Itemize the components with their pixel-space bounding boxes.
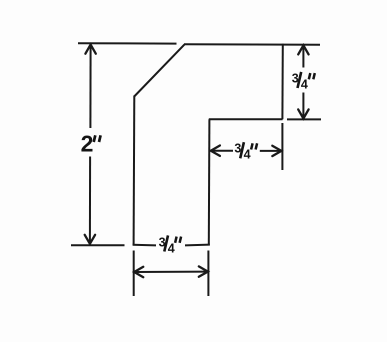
dimension middle 3/4in: arrow line left segment (211, 150, 233, 152)
profile inner vertical edge (208, 119, 211, 245)
profile inner horizontal edge (209, 118, 283, 120)
dimension bottom 3/4in: right arrowhead (199, 266, 208, 276)
dimension 2in: extension tick at bottom (71, 244, 125, 246)
dimension right 3/4in: arrow line lower segment (302, 93, 304, 119)
dimension right 3/4in: fraction slash (298, 72, 302, 88)
dimension middle 3/4in: right arrowhead (272, 146, 281, 156)
svg-text:4: 4 (244, 148, 251, 162)
dimension 2in: arrow line upper segment (89, 45, 91, 129)
dimension bottom 3/4in: arrow line (134, 271, 208, 273)
profile top edge and right extension line (184, 43, 320, 46)
dimension 2in: inch primes (94, 135, 96, 142)
dimension middle 3/4in: inch primes (251, 143, 253, 149)
dimension 2in: arrow line lower segment (89, 157, 91, 244)
dimension right 3/4in: inch primes (309, 73, 311, 79)
profile bottom edge (left segment) (133, 244, 156, 247)
dimension middle 3/4in: fraction slash (240, 142, 244, 158)
dimension 2in: down arrowhead (85, 235, 95, 244)
dimension right 3/4in: up arrowhead (298, 45, 308, 54)
top extension line (left of chamfer) (78, 42, 177, 44)
dimension right 3/4in: down arrowhead (298, 109, 308, 118)
dimension right 3/4in: extension tick at bottom (287, 118, 321, 120)
profile bottom edge (right segment) (185, 244, 210, 247)
dimension 2in: up arrowhead (85, 45, 95, 54)
svg-text:2: 2 (81, 131, 94, 157)
dimension middle 3/4in: left arrowhead (211, 146, 220, 156)
svg-text:4: 4 (168, 241, 175, 255)
profile left edge (133, 96, 136, 246)
dimension middle 3/4in: arrow line right segment (260, 150, 282, 152)
dimension bottom 3/4in: fraction slash (164, 235, 168, 251)
profile right edge (281, 44, 283, 120)
dimension right 3/4in: arrow line upper segment (302, 45, 304, 67)
svg-text:4: 4 (301, 78, 308, 92)
dimension bottom 3/4in: inch primes (175, 237, 177, 243)
dimension bottom 3/4in: left arrowhead (134, 267, 143, 277)
profile chamfer (diagonal edge) (134, 44, 184, 96)
dimension middle 3/4in: right extension line (281, 123, 283, 170)
dimension bottom 3/4in: left extension line (133, 251, 135, 297)
dimension bottom 3/4in: right extension line (207, 251, 209, 297)
